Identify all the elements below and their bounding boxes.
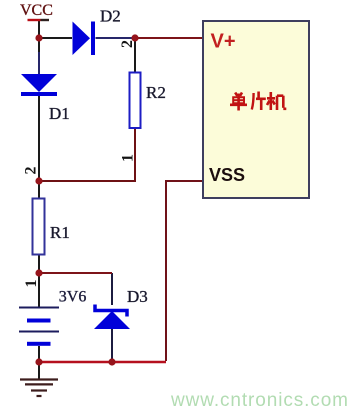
svg-text:1: 1 xyxy=(120,154,137,162)
svg-text:D1: D1 xyxy=(49,104,70,123)
svg-text:2: 2 xyxy=(119,40,136,48)
svg-text:3V6: 3V6 xyxy=(59,289,87,306)
svg-text:D2: D2 xyxy=(100,7,121,26)
svg-text:VCC: VCC xyxy=(20,2,53,19)
svg-text:2: 2 xyxy=(23,167,40,175)
svg-text:VSS: VSS xyxy=(209,165,245,185)
svg-text:R2: R2 xyxy=(146,83,166,102)
svg-text:D3: D3 xyxy=(127,287,148,306)
svg-text:V+: V+ xyxy=(211,31,236,53)
svg-text:R1: R1 xyxy=(50,223,70,242)
svg-text:1: 1 xyxy=(23,280,40,288)
svg-text:www.cntronics.com: www.cntronics.com xyxy=(170,390,349,411)
